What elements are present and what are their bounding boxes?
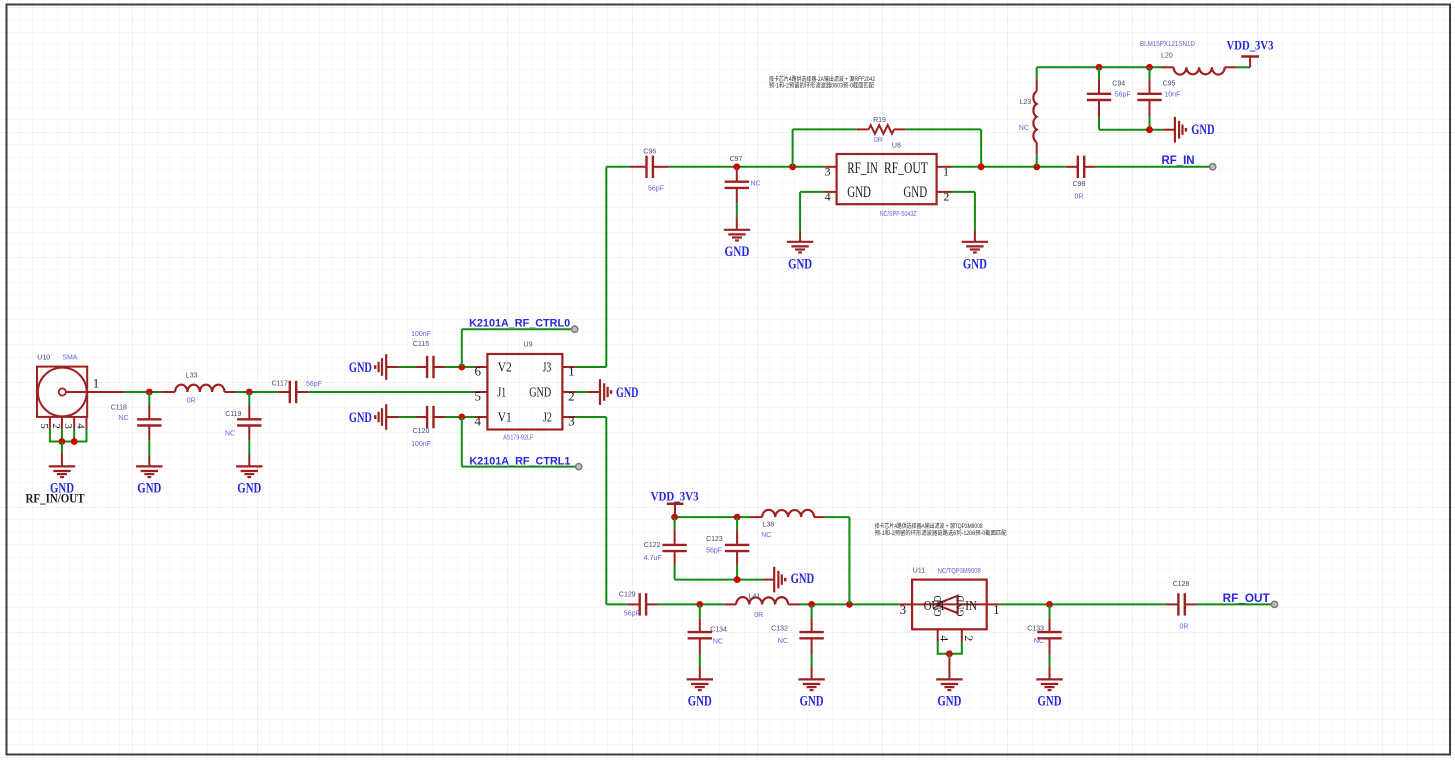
- svg-text:RF_IN: RF_IN: [1162, 155, 1195, 167]
- svg-text:C120: C120: [413, 428, 430, 435]
- svg-text:K2101A_RF_CTRL0: K2101A_RF_CTRL0: [469, 318, 570, 330]
- svg-text:56pF: 56pF: [306, 381, 322, 388]
- svg-text:VDD_3V3: VDD_3V3: [1227, 37, 1274, 52]
- svg-text:GND: GND: [800, 694, 824, 710]
- svg-text:0R: 0R: [754, 612, 763, 619]
- svg-text:BLM15PX121SN1D: BLM15PX121SN1D: [1140, 41, 1195, 48]
- svg-text:GND: GND: [963, 257, 987, 273]
- svg-text:6: 6: [475, 363, 482, 378]
- svg-text:C118: C118: [111, 405, 127, 412]
- svg-text:J2: J2: [543, 409, 552, 424]
- svg-text:2: 2: [962, 635, 976, 641]
- svg-text:L41: L41: [748, 593, 760, 600]
- svg-text:L20: L20: [1161, 53, 1173, 60]
- svg-text:4: 4: [74, 423, 86, 429]
- svg-text:2: 2: [568, 388, 575, 403]
- svg-text:R19: R19: [873, 117, 886, 124]
- svg-text:100nF: 100nF: [411, 331, 431, 338]
- svg-text:RF_IN: RF_IN: [847, 160, 878, 177]
- svg-text:K2101A_RF_CTRL1: K2101A_RF_CTRL1: [469, 456, 570, 468]
- svg-text:GND: GND: [1191, 122, 1214, 138]
- svg-text:C97: C97: [730, 156, 743, 163]
- svg-text:0R: 0R: [1075, 194, 1084, 201]
- svg-text:C96: C96: [643, 148, 656, 155]
- svg-text:GND: GND: [349, 360, 372, 376]
- svg-text:C133: C133: [1027, 626, 1044, 633]
- svg-text:C123: C123: [706, 536, 723, 543]
- svg-text:56pF: 56pF: [706, 548, 722, 555]
- svg-text:L38: L38: [763, 521, 775, 528]
- svg-text:GND: GND: [237, 481, 261, 497]
- svg-text:2: 2: [943, 190, 949, 204]
- svg-text:预-1和-2预留的环形滤波器链路选6列-1206预-0截面匹: 预-1和-2预留的环形滤波器链路选6列-1206预-0截面匹配: [875, 529, 1007, 537]
- svg-text:3: 3: [825, 165, 831, 179]
- svg-text:4: 4: [825, 190, 831, 204]
- svg-text:4.7uF: 4.7uF: [644, 555, 662, 562]
- svg-text:100nF: 100nF: [411, 441, 431, 448]
- svg-text:NC: NC: [1034, 638, 1044, 645]
- svg-text:RF_IN/OUT: RF_IN/OUT: [26, 491, 85, 506]
- svg-text:C122: C122: [644, 542, 661, 549]
- svg-text:56pF: 56pF: [1115, 92, 1131, 99]
- svg-text:L23: L23: [1020, 99, 1032, 106]
- svg-text:NC: NC: [751, 180, 761, 187]
- svg-text:NC: NC: [225, 430, 235, 437]
- svg-text:0R: 0R: [1180, 624, 1189, 631]
- svg-text:C129: C129: [619, 592, 636, 599]
- svg-text:NC: NC: [778, 638, 788, 645]
- svg-text:C94: C94: [1112, 81, 1125, 88]
- svg-text:GND: GND: [137, 481, 161, 497]
- svg-text:RF_OUT: RF_OUT: [884, 160, 928, 177]
- svg-text:V1: V1: [498, 409, 512, 424]
- svg-text:GND: GND: [725, 244, 750, 260]
- svg-text:GND: GND: [955, 595, 967, 616]
- svg-text:GND: GND: [788, 257, 812, 273]
- svg-text:U8: U8: [892, 142, 901, 149]
- svg-text:J1: J1: [497, 384, 506, 399]
- svg-text:NC/TQP3M9008: NC/TQP3M9008: [938, 568, 981, 575]
- svg-text:V2: V2: [498, 359, 512, 374]
- svg-text:NC/SPF-5043Z: NC/SPF-5043Z: [880, 211, 918, 218]
- svg-text:GND: GND: [1038, 694, 1062, 710]
- svg-text:GND: GND: [529, 384, 551, 399]
- svg-text:GND: GND: [688, 694, 712, 710]
- svg-text:预-1和-2预留的环形滤波器0603预-0截面匹配: 预-1和-2预留的环形滤波器0603预-0截面匹配: [769, 81, 874, 89]
- svg-text:0R: 0R: [187, 398, 196, 405]
- svg-text:NC: NC: [1019, 125, 1029, 132]
- svg-text:择卡芯片4路供选择器A输出滤波 + 源TQP3M9008: 择卡芯片4路供选择器A输出滤波 + 源TQP3M9008: [875, 522, 984, 530]
- svg-text:C132: C132: [771, 626, 788, 633]
- svg-text:GND: GND: [791, 571, 815, 587]
- svg-text:0R: 0R: [874, 137, 883, 144]
- svg-text:GND: GND: [847, 184, 871, 201]
- svg-text:3: 3: [568, 413, 575, 428]
- svg-text:VDD_3V3: VDD_3V3: [651, 488, 699, 503]
- svg-text:4: 4: [475, 413, 482, 428]
- svg-text:C117: C117: [272, 381, 288, 388]
- svg-text:C119: C119: [225, 411, 241, 418]
- svg-text:U11: U11: [913, 567, 925, 574]
- svg-text:3: 3: [900, 602, 907, 617]
- svg-text:NC: NC: [118, 415, 128, 422]
- svg-text:NC: NC: [713, 638, 723, 645]
- svg-text:4: 4: [938, 635, 952, 641]
- svg-text:5: 5: [475, 388, 482, 403]
- svg-text:GND: GND: [932, 595, 944, 616]
- svg-text:C98: C98: [1073, 181, 1086, 188]
- svg-text:56pF: 56pF: [648, 186, 664, 193]
- svg-text:U10: U10: [37, 355, 50, 362]
- svg-text:GND: GND: [616, 385, 638, 401]
- svg-text:C134: C134: [710, 626, 727, 633]
- svg-text:J3: J3: [543, 359, 552, 374]
- svg-text:2: 2: [50, 423, 62, 429]
- svg-text:C95: C95: [1163, 81, 1176, 88]
- svg-text:L33: L33: [186, 372, 198, 379]
- svg-text:RF_OUT: RF_OUT: [1223, 593, 1270, 605]
- svg-text:56pF: 56pF: [624, 611, 640, 618]
- svg-text:C128: C128: [1173, 581, 1190, 588]
- svg-text:GND: GND: [937, 694, 961, 710]
- svg-text:NC: NC: [761, 532, 771, 539]
- svg-text:1: 1: [568, 363, 575, 378]
- svg-text:GND: GND: [349, 410, 372, 426]
- svg-text:3: 3: [62, 423, 74, 429]
- svg-text:SMA: SMA: [62, 355, 78, 362]
- svg-text:IN: IN: [965, 599, 977, 614]
- svg-text:1: 1: [943, 165, 949, 179]
- svg-text:GND: GND: [903, 184, 927, 201]
- svg-text:择卡芯片4路供选择器-2A输出滤波 + 源RFF2042: 择卡芯片4路供选择器-2A输出滤波 + 源RFF2042: [769, 75, 876, 83]
- svg-text:10nF: 10nF: [1164, 92, 1180, 99]
- svg-text:AS179-92LF: AS179-92LF: [503, 435, 533, 442]
- svg-text:1: 1: [93, 376, 100, 391]
- svg-text:5: 5: [38, 423, 50, 429]
- svg-text:U9: U9: [524, 342, 533, 349]
- svg-text:C115: C115: [413, 341, 429, 348]
